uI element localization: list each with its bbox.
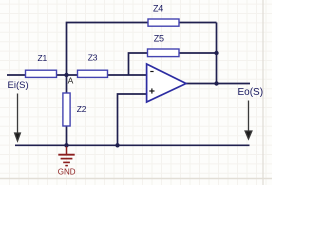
svg-text:Ei(S): Ei(S) xyxy=(8,80,29,91)
svg-text:Z2: Z2 xyxy=(77,104,87,114)
svg-text:Z5: Z5 xyxy=(154,34,164,44)
svg-text:GND: GND xyxy=(58,168,76,177)
svg-text:A: A xyxy=(68,76,74,86)
svg-text:Eo(S): Eo(S) xyxy=(238,87,264,98)
svg-text:Z1: Z1 xyxy=(38,53,48,63)
svg-text:Z3: Z3 xyxy=(88,53,98,63)
svg-text:Z4: Z4 xyxy=(153,4,163,14)
